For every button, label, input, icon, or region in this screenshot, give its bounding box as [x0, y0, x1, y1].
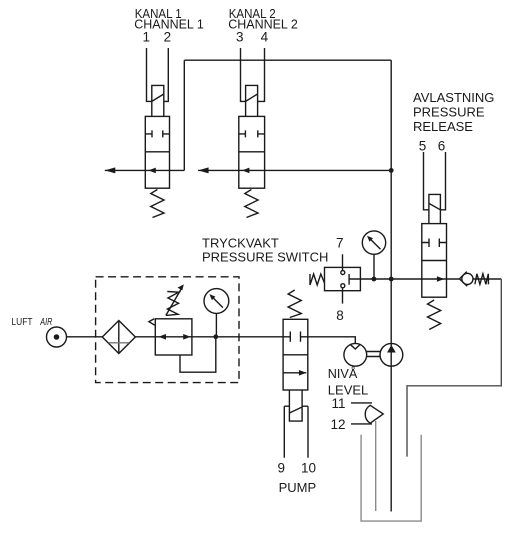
- wire pin 7: [342, 254, 344, 270]
- regulator adjusting spring: [166, 292, 179, 316]
- valve V3 flow arrow: [437, 276, 444, 282]
- svg-text:TRYCKVAKT: TRYCKVAKT: [202, 236, 279, 251]
- wire pin 11: [351, 402, 372, 404]
- svg-text:AIR: AIR: [40, 317, 53, 328]
- solenoid diagonal V4: [289, 407, 302, 413]
- valve V3 divider: [422, 260, 447, 262]
- valve V2 body: [239, 116, 265, 188]
- level sensor LS1: [365, 405, 383, 423]
- valve V3 body: [422, 224, 447, 298]
- switch contact bottom: [341, 284, 345, 288]
- wire pin 9: [284, 406, 289, 458]
- wire riser from V1 output: [183, 60, 185, 170]
- valve V2 blocked port left: [239, 130, 246, 137]
- pump air motor circle: [344, 343, 367, 366]
- valve V4 blocked port right: [301, 332, 308, 342]
- svg-text:AVLASTNING: AVLASTNING: [413, 90, 494, 105]
- svg-text:PRESSURE: PRESSURE: [413, 105, 485, 120]
- regulator arrow left: [159, 334, 167, 340]
- wire pin 6: [440, 152, 445, 210]
- solenoid diagonal V2: [246, 94, 258, 101]
- svg-text:NIVÅ: NIVÅ: [328, 366, 358, 381]
- valve V3 blocked port right: [439, 239, 446, 248]
- valve V4 flow line: [283, 372, 306, 374]
- junction main riser pressure: [389, 277, 394, 282]
- valve V4 divider: [283, 354, 308, 356]
- regulator feedback line: [180, 337, 216, 372]
- pump air motor notch: [351, 345, 361, 350]
- filter F1 vertical: [118, 321, 120, 354]
- wire check valve out: [473, 278, 502, 280]
- junction V2 output: [389, 168, 394, 173]
- valve V1 body: [145, 116, 169, 188]
- label AVLASTNING / PRESSURE / RELEASE: [413, 90, 494, 134]
- svg-text:12: 12: [330, 417, 345, 432]
- label KANAL 1 / CHANNEL 1: [134, 6, 204, 31]
- solenoid stem V1: [152, 85, 164, 116]
- wire pin 3: [241, 48, 246, 101]
- svg-text:3: 3: [236, 30, 244, 45]
- svg-text:11: 11: [331, 396, 345, 411]
- dashed enclosure: [96, 277, 239, 383]
- wire through regulator: [155, 336, 192, 338]
- gauge G2 needle arrowhead: [367, 236, 373, 242]
- switch contact top: [341, 271, 345, 275]
- solenoid diagonal V1: [152, 94, 164, 101]
- valve V1 divider: [145, 151, 169, 153]
- air source dot: [54, 334, 60, 340]
- wire pin 5: [424, 152, 429, 210]
- wire pin 4: [258, 48, 265, 101]
- filter F1 separator chord: [108, 342, 129, 344]
- svg-text:1: 1: [143, 30, 151, 45]
- solenoid diagonal V3: [429, 203, 441, 209]
- gauge G2 needle: [370, 239, 381, 250]
- valve V1 blocked port left: [145, 130, 152, 137]
- valve V2 flow arrow: [242, 168, 249, 174]
- svg-text:RELEASE: RELEASE: [413, 119, 473, 134]
- svg-text:4: 4: [261, 30, 269, 45]
- svg-text:5: 5: [419, 139, 427, 154]
- pump flow triangle: [387, 345, 396, 353]
- svg-text:9: 9: [278, 461, 286, 476]
- wire pin 1: [147, 48, 152, 101]
- label LUFT AIR: [12, 317, 53, 328]
- svg-text:PUMP: PUMP: [279, 480, 317, 495]
- svg-text:6: 6: [438, 139, 446, 154]
- regulator adjusting arrowhead: [178, 284, 184, 290]
- pump coupling: [367, 352, 380, 357]
- spring V3: [428, 300, 441, 330]
- pump circle: [380, 343, 403, 366]
- gauge G1 stem: [215, 313, 217, 336]
- valve V3 blocked port left: [422, 239, 429, 248]
- solenoid stem V4: [289, 390, 302, 421]
- valve V4 body: [283, 319, 308, 390]
- pressure switch box: [325, 267, 361, 290]
- spring V2: [245, 190, 258, 218]
- wire top manifold: [184, 59, 391, 61]
- svg-text:2: 2: [164, 30, 172, 45]
- regulator arrow right: [183, 334, 190, 340]
- regulator adjusting arrow shaft: [166, 289, 181, 316]
- gauge G1 needle: [212, 297, 223, 308]
- solenoid stem V3: [429, 194, 441, 223]
- wire return line: [407, 279, 501, 457]
- wire regulator to pump valve: [192, 336, 283, 338]
- junction regulator output: [213, 334, 218, 339]
- valve V4 blocked port left: [283, 332, 290, 342]
- air source circle: [47, 327, 67, 347]
- label TRYCKVAKT / PRESSURE SWITCH: [202, 236, 328, 265]
- wire exhaust/flow V2 to main riser: [198, 169, 391, 171]
- wire filter to regulator: [135, 336, 155, 338]
- exhaust arrowhead V2: [198, 167, 209, 173]
- valve V1 blocked port right: [163, 130, 170, 137]
- wire main riser: [390, 60, 392, 511]
- wire pin 2: [164, 48, 169, 101]
- regulator R1 body: [155, 319, 192, 355]
- wire pump air inlet: [308, 337, 356, 344]
- check valve seat: [459, 272, 467, 287]
- label NIVÅ / LEVEL: [328, 366, 368, 398]
- check valve ball: [462, 273, 473, 284]
- wire pin 10: [302, 406, 308, 458]
- wire pin 8: [342, 288, 344, 304]
- svg-text:10: 10: [301, 461, 316, 476]
- gauge G1 needle arrowhead: [209, 294, 215, 300]
- filter F1 diamond: [102, 321, 135, 354]
- pressure gauge G2: [362, 231, 385, 254]
- regulator relief flag: [149, 319, 155, 325]
- svg-text:PRESSURE SWITCH: PRESSURE SWITCH: [202, 250, 328, 265]
- valve V2 divider: [239, 151, 265, 153]
- svg-text:LUFT: LUFT: [12, 317, 33, 328]
- switch spring: [310, 274, 325, 285]
- solenoid stem V2: [246, 85, 258, 116]
- switch contact bar: [348, 274, 350, 285]
- svg-text:7: 7: [336, 235, 344, 250]
- wire air inlet: [67, 336, 103, 338]
- valve V2 blocked port right: [258, 130, 265, 137]
- svg-text:8: 8: [336, 308, 344, 323]
- spring V4 top: [288, 290, 301, 318]
- wire exhaust/flow V1: [105, 169, 185, 171]
- label KANAL 2 / CHANNEL 2: [228, 6, 297, 31]
- wire pin 12: [351, 423, 372, 425]
- pressure gauge G1: [204, 289, 229, 314]
- check valve spring: [475, 274, 489, 285]
- valve V1 flow arrow: [148, 168, 155, 174]
- junction gauge stem: [372, 277, 377, 282]
- tank: [361, 435, 421, 521]
- spring V1: [151, 190, 164, 218]
- level sensor tube: [375, 421, 377, 511]
- valve V4 flow arrow: [299, 370, 306, 376]
- gauge G2 stem: [373, 254, 375, 279]
- exhaust arrowhead V1: [105, 167, 116, 173]
- wire pressure line: [349, 278, 459, 280]
